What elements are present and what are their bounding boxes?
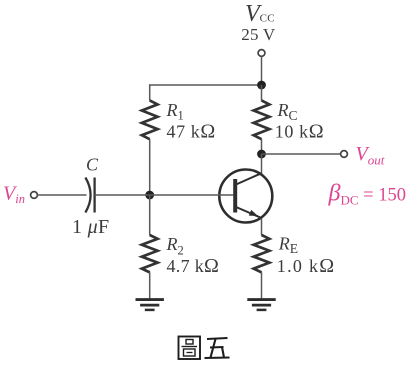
ground right	[247, 298, 275, 301]
transistor Q1 emitter lead	[236, 207, 262, 218]
transistor Q1 circle	[219, 170, 272, 223]
svg-text:Vout: Vout	[356, 143, 385, 168]
wire Vin to capacitor	[38, 194, 87, 196]
transistor Q1 base bar	[233, 179, 237, 213]
svg-text:βDC = 150: βDC = 150	[328, 181, 406, 208]
wire RC to collector node	[261, 139, 263, 154]
wire capacitor to base	[95, 194, 234, 196]
svg-text:1.0 kΩ: 1.0 kΩ	[277, 255, 336, 277]
VCC terminal	[258, 50, 265, 57]
svg-text:C: C	[86, 155, 99, 175]
wire top corner down to R1	[149, 84, 151, 100]
ground left	[136, 298, 164, 301]
svg-text:R2: R2	[166, 234, 184, 258]
wire top junction to RC	[261, 85, 263, 101]
capacitor C straight plate	[93, 178, 95, 213]
wire R2 to ground	[149, 272, 151, 299]
svg-text:4.7 kΩ: 4.7 kΩ	[167, 255, 220, 277]
svg-text:47 kΩ: 47 kΩ	[167, 120, 216, 142]
caption figure five: char WU (five)	[205, 338, 230, 358]
svg-text:10 kΩ: 10 kΩ	[275, 120, 324, 142]
svg-text:1 μF: 1 μF	[72, 216, 109, 238]
Vout terminal	[341, 151, 348, 158]
wire base junction to R2	[149, 195, 151, 235]
transistor Q1 emitter arrowhead	[249, 210, 258, 216]
wire R1 to base junction	[149, 139, 151, 195]
svg-text:R1: R1	[166, 100, 184, 123]
wire VCC terminal to top junction	[261, 57, 263, 85]
svg-text:RC: RC	[277, 100, 298, 123]
resistor RE	[254, 235, 270, 272]
caption figure five: char TU (picture)	[179, 337, 201, 360]
svg-text:RE: RE	[278, 234, 298, 257]
wire collector node down to transistor	[261, 154, 263, 174]
wire emitter to RE	[261, 219, 263, 236]
wire top horizontal	[150, 84, 262, 86]
capacitor C curved plate	[85, 178, 90, 213]
Vin terminal	[31, 192, 38, 199]
svg-text:Vin: Vin	[3, 183, 25, 207]
wire collector node to Vout terminal	[262, 153, 341, 155]
junction collector node	[257, 150, 266, 159]
wire RE to ground	[261, 272, 263, 299]
svg-text:VCC: VCC	[245, 1, 275, 27]
resistor R1	[142, 100, 158, 139]
junction base node	[145, 191, 154, 200]
resistor RC	[254, 100, 270, 139]
resistor R2	[142, 235, 158, 272]
transistor Q1 collector lead	[236, 173, 262, 184]
junction top node	[257, 81, 266, 90]
svg-text:25 V: 25 V	[241, 25, 276, 44]
